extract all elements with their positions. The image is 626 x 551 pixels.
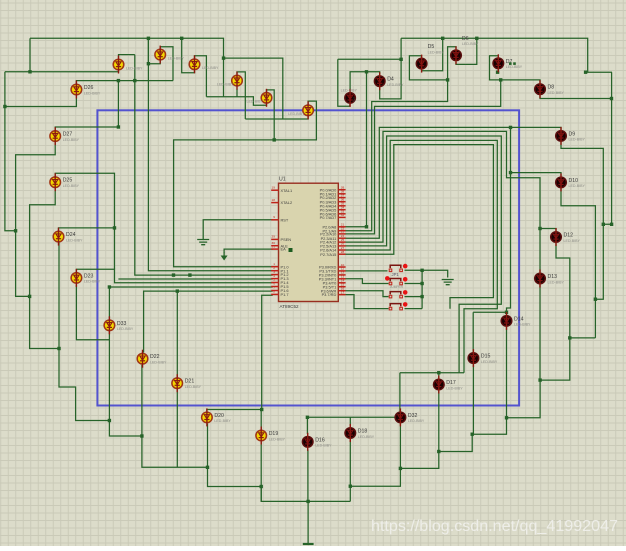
LED D25 [50, 173, 80, 191]
LED D14 [501, 312, 531, 330]
LED D4 [374, 72, 404, 90]
wire D12 top branch [540, 229, 556, 232]
svg-text:P2.7/A15: P2.7/A15 [320, 252, 336, 257]
svg-text:LED-BIBY: LED-BIBY [446, 386, 463, 390]
svg-text:LED-BIBY: LED-BIBY [564, 239, 581, 243]
wire D25 bottom hook [30, 188, 59, 349]
svg-text:LED-BIBY: LED-BIBY [569, 138, 586, 142]
svg-text:D16: D16 [315, 437, 325, 443]
wire x118 drop [117, 81, 119, 127]
svg-text:D12: D12 [564, 233, 574, 239]
LED D17 [434, 376, 464, 394]
svg-text:AT89C52: AT89C52 [280, 304, 300, 309]
wire D21 riser [176, 291, 178, 377]
LED D9 [556, 127, 586, 145]
svg-text:D24: D24 [66, 232, 76, 238]
wire JP row2 [346, 279, 389, 284]
svg-text:LED-BIBY: LED-BIBY [63, 184, 80, 188]
wire LED-A top hook [119, 55, 135, 58]
svg-text:LED-BIBY: LED-BIBY [168, 56, 185, 60]
svg-text:P3.7/RD: P3.7/RD [322, 292, 337, 297]
ground bottom [303, 543, 314, 545]
LED D24 [53, 228, 83, 246]
wire right edge drop [603, 72, 611, 224]
LED D3 [341, 88, 358, 107]
MCU U1 AT89C52 [271, 177, 345, 309]
wire JP vertical [421, 270, 423, 308]
wire y59 bus [338, 58, 401, 60]
svg-text:RST: RST [281, 217, 289, 222]
svg-text:LED-BIBY: LED-BIBY [548, 91, 565, 95]
wire P1.1 riser [148, 38, 272, 270]
wire D13 bottom drop [539, 285, 541, 381]
wire LED-D top hook [237, 72, 245, 119]
svg-text:LED-BIBY: LED-BIBY [84, 91, 101, 95]
wire D22 stair drop [142, 365, 208, 468]
svg-text:D5: D5 [428, 44, 435, 50]
wire D15 bottom drop [472, 364, 474, 434]
wire JP row3 [346, 291, 389, 297]
LED LED F [288, 101, 313, 119]
svg-text:29: 29 [272, 235, 276, 239]
svg-text:LED-BIBY: LED-BIBY [341, 88, 358, 92]
wire D5 bottom hook [422, 38, 443, 70]
wire D10 top branch [511, 173, 562, 177]
wire right stair [350, 338, 595, 486]
wire P1.3 riser [118, 278, 272, 280]
svg-text:31: 31 [272, 244, 276, 248]
wire D6 top drop [346, 47, 457, 231]
LED D26 [71, 81, 101, 99]
svg-text:D26: D26 [84, 85, 94, 91]
svg-text:3: 3 [353, 97, 356, 103]
wire D19 top lead wire [260, 410, 262, 430]
svg-text:D27: D27 [63, 132, 73, 138]
LED D21 [172, 374, 202, 392]
wire y58 bus [224, 58, 283, 119]
LED D7 [493, 54, 523, 72]
svg-text:28: 28 [341, 250, 345, 254]
wire LED-F bottom bus [245, 116, 308, 119]
svg-text:LED-BIBY: LED-BIBY [150, 361, 167, 365]
wire D7 top hook [490, 56, 541, 83]
wire JP row2 right [405, 283, 423, 285]
wire D12 bottom hook [556, 243, 570, 338]
wire top-right bus [401, 38, 612, 72]
LED D10 [556, 173, 586, 191]
svg-text:D15: D15 [481, 354, 491, 360]
svg-text:LED-BIBY: LED-BIBY [66, 238, 83, 242]
wire LED-D bottom hook [236, 89, 238, 97]
svg-text:9: 9 [273, 215, 275, 219]
power-down arrow at EA [223, 252, 225, 256]
wire D32 riser [399, 373, 401, 412]
ground at JP1 [442, 280, 454, 285]
wire JP row1 [346, 270, 388, 272]
LED D27 [50, 127, 80, 145]
svg-text:LED-BIBY: LED-BIBY [315, 444, 332, 448]
wire D24 top bus [59, 228, 115, 231]
wire JP row1 right [405, 270, 448, 277]
wire P1.6 to D22 [144, 291, 273, 352]
LED D16 [302, 433, 332, 451]
ground at RST [197, 240, 209, 245]
svg-text:LED-BIBY: LED-BIBY [514, 323, 531, 327]
svg-text:LED-BIBY: LED-BIBY [63, 138, 80, 142]
wire JP row4 right [405, 308, 423, 310]
svg-text:D33: D33 [117, 321, 127, 327]
wire D9 bottom hook [561, 142, 603, 300]
svg-text:19: 19 [272, 185, 276, 189]
wire D17 bottom drop [438, 390, 440, 451]
wire LED-C top hook [195, 56, 207, 97]
svg-text:LED-BIBY: LED-BIBY [269, 437, 286, 441]
LED D32 [395, 408, 425, 426]
wire D8 bottom bus [540, 95, 612, 99]
svg-text:D22: D22 [150, 354, 160, 360]
svg-text:LED-BIBY: LED-BIBY [84, 280, 101, 284]
wire JP row4 [346, 295, 389, 309]
svg-text:LED-BIBY: LED-BIBY [408, 419, 425, 423]
wire D26 bottom bus [5, 72, 77, 107]
svg-text:D8: D8 [548, 85, 555, 91]
svg-text:D13: D13 [548, 274, 558, 280]
LED D19 [256, 427, 286, 445]
wire P1.2 riser [135, 55, 273, 276]
wire RST [203, 220, 273, 240]
LED D23 [71, 269, 101, 287]
svg-text:XTAL1: XTAL1 [281, 188, 293, 193]
wire D14 feed [507, 127, 511, 314]
jumper JP1 [385, 264, 408, 310]
wire y97 bus [206, 97, 266, 106]
wire EA [224, 249, 273, 252]
svg-text:D21: D21 [185, 379, 195, 385]
wire D3 bottom hook [338, 59, 350, 106]
svg-text:32: 32 [341, 213, 345, 217]
wire D27 top hook [55, 127, 118, 131]
wire D3-D4 top bus [350, 72, 380, 92]
svg-text:LED-BIBY: LED-BIBY [548, 280, 565, 284]
wire D17 top lead wire [438, 373, 440, 379]
svg-text:https://blog.csdn.net/qq_41992: https://blog.csdn.net/qq_41992047 [371, 517, 618, 535]
LED D8 [535, 80, 565, 98]
svg-text:D25: D25 [63, 178, 73, 184]
LED D5 [416, 44, 444, 73]
node marker dots near D7 [509, 62, 512, 65]
LED D22 [137, 350, 167, 368]
svg-text:JUMPER: JUMPER [390, 285, 404, 289]
wire D26 top bus [76, 81, 173, 84]
wire P2.2 riser [346, 80, 501, 234]
wire D10 bottom hook [561, 189, 595, 338]
svg-text:LED-BIBY: LED-BIBY [247, 100, 264, 104]
svg-text:LED-BIBY: LED-BIBY [288, 112, 305, 116]
LED LED E [247, 89, 272, 107]
wire D25 top hook [55, 173, 114, 269]
svg-text:LED-BIBY: LED-BIBY [217, 82, 234, 86]
wire arc3 P2.5-D17 [346, 136, 502, 373]
svg-text:D14: D14 [514, 316, 524, 322]
wire LED-B top hook [160, 47, 173, 81]
svg-text:D32: D32 [408, 413, 418, 419]
svg-text:LED-BIBY: LED-BIBY [202, 66, 219, 70]
wire ground stem bottom [307, 501, 309, 543]
svg-text:D10: D10 [569, 178, 579, 184]
svg-text:8: 8 [273, 290, 275, 294]
wire D6 bottom hook [456, 38, 477, 64]
svg-text:LED-BIBY: LED-BIBY [185, 385, 202, 389]
wire D14 bottom drop [506, 327, 508, 418]
wire D15 drop [472, 312, 474, 353]
wire D5 top hook [409, 56, 447, 80]
svg-text:LED-BIBY: LED-BIBY [126, 66, 143, 70]
svg-text:D20: D20 [214, 413, 224, 419]
LED D12 [551, 228, 581, 246]
LED LED C [189, 55, 219, 73]
svg-text:EA: EA [281, 247, 287, 252]
wire arc1 P2.3-D9 [346, 127, 562, 238]
wire JP row3 right [405, 296, 423, 298]
LED LED D [217, 72, 242, 90]
svg-text:LED-BIBY: LED-BIBY [358, 435, 375, 439]
wire left outer drop [5, 107, 16, 231]
wire D23 bottom hook [76, 285, 109, 340]
svg-text:LED-BIBY: LED-BIBY [428, 50, 445, 54]
wire D18 vertical [349, 417, 351, 501]
svg-text:D17: D17 [446, 380, 456, 386]
sheet border [97, 110, 519, 405]
wire P1.0 route [174, 101, 317, 267]
LED D6 [451, 36, 479, 65]
svg-text:LED-BIBY: LED-BIBY [569, 184, 586, 188]
wire D21 bottom [176, 389, 178, 467]
svg-text:LED-BIBY: LED-BIBY [462, 42, 479, 46]
svg-text:P1.7: P1.7 [281, 292, 289, 297]
LED LED A [113, 56, 143, 74]
wire D17-D32 bus [400, 372, 464, 374]
wire D7 bottom lead wire [497, 70, 499, 72]
LED D18 [345, 424, 375, 442]
wire node left-bus drop [29, 38, 31, 72]
wire D4 riser [380, 38, 401, 99]
wire P2.0 riser [346, 72, 367, 227]
wire D16 bottom drop [307, 450, 309, 502]
svg-text:XTAL2: XTAL2 [281, 200, 293, 205]
wire D32 bottom drop [399, 423, 401, 468]
svg-text:D4: D4 [387, 77, 394, 83]
wire D15 branch [473, 311, 506, 313]
wire D16 top lead wire [306, 417, 308, 434]
svg-text:17: 17 [341, 290, 345, 294]
svg-text:D6: D6 [462, 36, 469, 42]
wire D23 top hook [76, 269, 272, 283]
wire P1.7 to D19 [262, 295, 273, 409]
wire bottom-left V [261, 487, 350, 502]
svg-text:18: 18 [272, 198, 276, 202]
svg-text:D18: D18 [358, 429, 368, 435]
wire LED-A bottom bus [5, 69, 119, 72]
svg-text:LED-BIBY: LED-BIBY [214, 419, 231, 423]
LED D33 [104, 316, 134, 334]
svg-text:LED-BIBY: LED-BIBY [117, 327, 134, 331]
wire LED-B bottom hook [148, 38, 160, 63]
wire LED-C bottom hook [182, 38, 195, 72]
wire arc2 P2.4-D13 [346, 131, 541, 272]
svg-text:D19: D19 [269, 431, 279, 437]
wire D16-D32 bus [307, 416, 396, 418]
LED D15 [468, 349, 498, 367]
svg-text:PSEN: PSEN [281, 237, 292, 242]
wire D33 vertical [108, 331, 110, 420]
LED D20 [202, 408, 232, 426]
svg-text:JP1: JP1 [392, 272, 400, 277]
svg-text:U1: U1 [279, 177, 286, 183]
wire arc4 jog [346, 140, 498, 372]
svg-text:LED-BIBY: LED-BIBY [481, 360, 498, 364]
wire P1.5 to D33 [109, 287, 272, 319]
svg-text:D9: D9 [569, 131, 576, 137]
wire D27 bottom hook [16, 142, 56, 297]
wire D19 vertical [260, 442, 262, 502]
wire arc5 JP feed [346, 145, 494, 309]
LED LED B [155, 46, 185, 64]
wire top-left bus [30, 38, 224, 97]
svg-text:P0.7/AD7: P0.7/AD7 [320, 215, 337, 220]
svg-text:LED-BIBY: LED-BIBY [387, 83, 404, 87]
wire D20 bottom stair [208, 424, 262, 487]
wire D20 top bus [207, 410, 262, 412]
wire D24-D22 stair [59, 243, 142, 437]
wire LED-E top drop [267, 90, 275, 140]
svg-text:D23: D23 [84, 273, 94, 279]
svg-text:LED-BIBY: LED-BIBY [506, 65, 523, 69]
LED D13 [535, 270, 565, 288]
